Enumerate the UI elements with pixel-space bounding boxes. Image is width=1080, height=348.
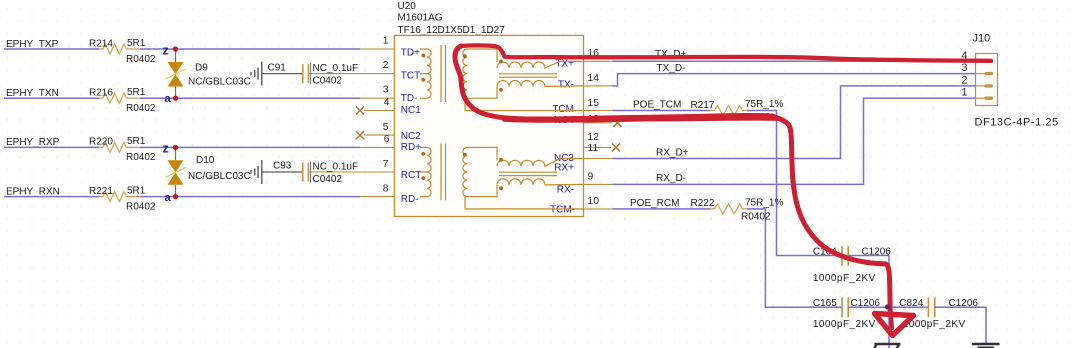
pin 10 stub [584,208,613,210]
svg-text:RD+: RD+ [401,142,421,153]
capacitor C164 [842,246,848,266]
svg-text:R0402: R0402 [126,54,156,65]
wire secondary top to TX choke [467,49,497,62]
svg-text:NC_0.1uF: NC_0.1uF [313,63,359,74]
svg-text:NC/GBLC03C: NC/GBLC03C [188,171,251,182]
wire C165 to C824 [848,306,928,308]
resistor R222 [715,204,743,214]
svg-text:R214: R214 [89,39,113,50]
svg-text:NC_0.1uF: NC_0.1uF [313,161,359,172]
wire C824 to earth ground [935,307,986,343]
svg-text:C165: C165 [813,298,837,309]
svg-text:12: 12 [588,132,600,143]
svg-text:M1601AG: M1601AG [398,13,443,24]
svg-text:TCM: TCM [552,104,574,115]
capacitor C91 [303,64,309,83]
svg-text:5: 5 [383,122,389,133]
pin stub U20 pin3 [360,97,394,99]
primary winding TX side [420,49,431,98]
svg-text:11: 11 [588,143,599,154]
chassis ground symbol [872,344,901,348]
red marker descender stroke through POE_TCM to arrow [455,46,890,312]
svg-text:TCM-: TCM- [550,205,575,216]
svg-text:z: z [163,43,169,57]
svg-text:RX+: RX+ [554,163,574,174]
capacitor C165 [842,297,848,317]
choke winding TX+ [497,61,584,68]
svg-text:75R_1%: 75R_1% [745,198,783,209]
svg-text:1: 1 [383,36,389,47]
svg-text:POE_TCM: POE_TCM [633,100,681,111]
resistor R216 lead [99,97,140,99]
diode D10 TVS vertical between RXP and RXN [175,147,177,160]
svg-text:D9: D9 [195,63,208,74]
red marker arrow shaft into head [891,312,892,328]
svg-text:C93: C93 [273,161,292,172]
svg-text:RD-: RD- [401,194,419,205]
choke core TX [499,74,557,77]
resistor R217 [715,106,743,116]
svg-text:C91: C91 [268,63,287,74]
wire EPHY_RXN left segment [4,196,360,198]
BOTTOM_CAPS [813,246,1000,348]
net RX_D+ wire pin11 to J10 pin2 [613,86,976,159]
pin 14 stub [584,85,613,87]
svg-text:a: a [165,192,172,204]
svg-text:TX+: TX+ [555,59,574,70]
svg-text:6: 6 [384,134,390,145]
wire junction to chassis ground [888,307,890,348]
svg-text:5R1: 5R1 [127,186,146,197]
resistor R217 lead [710,110,747,112]
svg-text:RX_D-: RX_D- [656,173,686,184]
junction dot row2 [886,305,891,310]
ground rotated (C91 return) [251,62,262,86]
wire TCM- tap [465,197,584,209]
svg-text:TX-: TX- [558,80,574,91]
svg-text:z: z [163,142,169,156]
svg-text:RCT: RCT [401,170,422,181]
TRANSFORMER_U20 [356,1,622,217]
svg-text:NC/GBLC03C: NC/GBLC03C [188,77,251,88]
primary winding RX side [420,147,431,196]
pin stub U20 pin8 [360,196,394,198]
secondary winding TX side [463,49,467,98]
svg-text:7: 7 [383,159,389,170]
svg-text:EPHY_RXP: EPHY_RXP [6,137,60,148]
wire secondary bottom to TX- choke [467,87,497,99]
pin 16 stub [584,60,613,62]
resistor R222 lead [710,208,747,210]
svg-text:3: 3 [961,62,967,74]
pin 12 stub with no-connect X [584,146,612,148]
svg-text:POE_RCM: POE_RCM [630,198,679,209]
resistor R220 [103,142,126,152]
wire secondary bottom to RX- choke [467,185,497,197]
net POE_TCM wire pin15 through R217 down to C164 [613,111,842,256]
svg-text:TX_D-: TX_D- [657,63,686,74]
svg-text:8: 8 [383,184,389,195]
wire EPHY_TXP left segment [4,48,360,50]
svg-text:C0402: C0402 [313,174,343,185]
red marker arrowhead [875,314,914,336]
pin 15 stub [584,110,613,112]
choke winding RX- [497,179,584,185]
svg-text:D10: D10 [196,155,215,166]
svg-text:1: 1 [961,87,967,99]
svg-text:R220: R220 [89,137,113,148]
svg-text:R216: R216 [89,88,113,99]
red marker second pass on pin13 row [504,119,783,121]
polarity dots RX half [421,152,503,190]
resistor R221 lead [99,196,140,198]
net POE_RCM wire pin10 through R222 down to C165 [613,209,842,307]
svg-text:R217: R217 [691,100,715,111]
polarity dots TX half [421,54,503,92]
net TX_D- wire pin14 to J10 pin3 [613,74,976,86]
wire TCM tap [465,98,584,110]
wire ground to C93 [262,171,302,173]
svg-text:U20: U20 [398,1,417,12]
svg-text:TF16_12D1X5D1_1D27: TF16_12D1X5D1_1D27 [398,25,506,36]
resistor R214 [103,44,126,54]
core lines TX transformer [441,45,446,102]
svg-text:C0402: C0402 [313,75,343,86]
svg-text:R0402: R0402 [126,202,156,213]
svg-text:R0402: R0402 [126,103,156,114]
resistor R216 [103,93,126,103]
svg-text:3: 3 [383,85,389,96]
diode D9 TVS vertical between TXP and TXN [175,49,177,62]
svg-text:1000pF_2KV: 1000pF_2KV [903,319,966,330]
choke core RX [499,172,557,175]
svg-text:R221: R221 [89,186,113,197]
pin 5 stub with no-connect X [364,134,394,136]
pin 9 stub [584,183,613,185]
RED_ANNOTATION [455,45,991,335]
svg-text:TD-: TD- [401,93,418,104]
svg-text:14: 14 [588,73,600,84]
svg-text:NC2: NC2 [401,131,421,142]
svg-text:TCT: TCT [401,71,420,82]
svg-text:9: 9 [588,172,594,183]
junction dot TXN/D9 with a flag [173,96,178,101]
junction dot TXP/D9 with Z flag [173,46,178,51]
net TX_D+ wire pin16 to J10 pin4 [613,60,976,62]
wire C164 right to junction [848,256,889,308]
capacitor C824 [928,297,934,317]
wire secondary top to RX choke [467,147,497,160]
core lines RX transformer [441,143,446,200]
svg-text:RX_D+: RX_D+ [656,148,689,159]
pin 11 stub [584,158,613,160]
svg-text:R222: R222 [691,198,715,209]
resistor R221 [103,192,126,202]
svg-text:10: 10 [588,196,600,207]
svg-text:C824: C824 [899,298,923,309]
svg-text:a: a [165,93,172,105]
secondary winding RX side [463,147,467,196]
svg-text:NC1: NC1 [401,105,421,116]
svg-text:1000pF_2KV: 1000pF_2KV [813,319,876,330]
wire EPHY_RXP left segment [4,146,360,148]
svg-text:15: 15 [588,98,600,109]
resistor R214 lead [99,48,140,50]
svg-text:4: 4 [384,97,390,108]
junction dot row2 over annotation [885,304,890,309]
junction dot RXN/D10 with a flag [173,194,178,199]
earth ground symbol [972,344,1000,348]
wire EPHY_TXN left segment [4,97,360,99]
net RX_D- wire pin9 to J10 pin1 [613,98,976,184]
resistor R220 lead [99,146,140,148]
red marker stroke along TX_D+ with loop start [461,45,991,60]
RIGHT_SECTION [613,33,1059,308]
svg-text:1000pF_2KV: 1000pF_2KV [813,273,876,284]
U20 body box [394,35,583,216]
svg-text:5R1: 5R1 [127,38,146,49]
pin stub U20 pin6 [360,146,394,148]
svg-text:75R_1%: 75R_1% [745,99,783,110]
pin stub U20 pin1 [360,48,394,50]
svg-text:2: 2 [383,60,389,71]
svg-text:5R1: 5R1 [127,87,146,98]
svg-text:RX-: RX- [557,184,574,195]
capacitor C93 [303,163,309,182]
wire ground to C91 [262,73,302,75]
svg-text:2: 2 [961,74,967,86]
junction dot RXP/D10 with Z flag [173,145,178,150]
svg-text:EPHY_TXN: EPHY_TXN [6,88,59,99]
LEFT_SECTION [4,38,394,213]
svg-text:R0402: R0402 [126,152,156,163]
svg-text:5R1: 5R1 [127,136,146,147]
choke winding TX- [497,81,584,87]
svg-text:DF13C-4P-1.25: DF13C-4P-1.25 [975,116,1059,128]
svg-text:J10: J10 [973,33,991,45]
ground rotated (C93 return) [251,160,262,184]
pin 4 stub with no-connect X [364,110,394,112]
choke winding RX+ [497,159,584,167]
svg-text:TD+: TD+ [401,48,420,59]
pin 13 stub with no-connect X [584,122,613,124]
svg-text:R0402: R0402 [741,212,771,223]
